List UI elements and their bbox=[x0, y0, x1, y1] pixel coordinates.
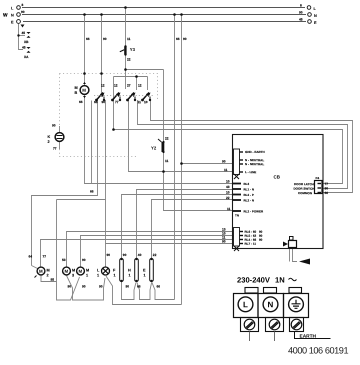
fuse F1 bbox=[113, 253, 129, 289]
svg-text:GND - EARTH: GND - EARTH bbox=[245, 150, 265, 154]
svg-text:P4: P4 bbox=[315, 176, 319, 180]
svg-text:L - LINE: L - LINE bbox=[245, 170, 256, 174]
wire 22 link bbox=[126, 69, 164, 71]
pin RL2-POWER bbox=[227, 207, 264, 218]
svg-text:RL7 - 11: RL7 - 11 bbox=[244, 242, 256, 246]
svg-text:EARTH: EARTH bbox=[299, 334, 316, 340]
svg-text:DOOR SWTCH: DOOR SWTCH bbox=[293, 187, 314, 191]
svg-text:66: 66 bbox=[176, 37, 180, 41]
junction E-branch bbox=[17, 34, 19, 36]
junction neutral bbox=[180, 162, 183, 165]
svg-text:66: 66 bbox=[86, 37, 90, 41]
svg-text:RL2 - P: RL2 - P bbox=[243, 193, 253, 197]
wire y200 left bbox=[57, 199, 106, 201]
wire M1 feed bbox=[81, 236, 233, 267]
switch S4 bbox=[138, 83, 151, 104]
wire 90 drop bbox=[181, 15, 183, 305]
svg-text:22: 22 bbox=[226, 196, 230, 200]
svg-text:1: 1 bbox=[128, 273, 130, 277]
connector XB bbox=[21, 31, 30, 44]
svg-text:COMMON: COMMON bbox=[298, 191, 312, 195]
svg-text:M: M bbox=[74, 86, 77, 90]
svg-text:66: 66 bbox=[90, 189, 94, 193]
wire MB drop 66 bbox=[84, 15, 86, 86]
svg-text:11: 11 bbox=[127, 37, 131, 41]
junction Y3-Y2 bbox=[124, 68, 127, 71]
junction Y2-line bbox=[162, 170, 165, 173]
terminal L right bbox=[300, 3, 317, 11]
svg-text:10: 10 bbox=[226, 190, 230, 194]
svg-text:XB: XB bbox=[24, 40, 29, 44]
svg-text:B: B bbox=[74, 91, 77, 95]
junction N-90 bbox=[180, 13, 183, 16]
wire K2 stub top bbox=[59, 126, 61, 133]
door lock K2 bbox=[47, 123, 63, 150]
svg-text:90: 90 bbox=[299, 10, 303, 14]
wire MB to CB bbox=[85, 95, 233, 184]
wire sw1 drop 90 bbox=[101, 15, 103, 98]
earth point CB bbox=[283, 237, 297, 248]
valve Y3 bbox=[120, 45, 136, 61]
junction N-MB bbox=[83, 13, 86, 16]
svg-text:2: 2 bbox=[46, 273, 48, 277]
wire E branch bbox=[19, 35, 26, 37]
svg-text:1: 1 bbox=[86, 273, 88, 277]
junction L-Y3 bbox=[124, 6, 127, 9]
wire E1 feed bbox=[152, 200, 233, 260]
svg-text:90: 90 bbox=[21, 10, 25, 14]
svg-text:Y2: Y2 bbox=[151, 145, 157, 150]
svg-text:90: 90 bbox=[101, 100, 105, 104]
svg-text:90: 90 bbox=[123, 253, 127, 257]
svg-text:N: N bbox=[314, 14, 317, 18]
wire door A bbox=[114, 90, 343, 184]
junction N-sw1 bbox=[100, 13, 103, 16]
wire sw3 top stub bbox=[136, 77, 138, 91]
svg-text:45: 45 bbox=[299, 17, 303, 21]
wire Y3 to sw2 bbox=[125, 55, 127, 90]
svg-text:22: 22 bbox=[153, 253, 157, 257]
svg-text:12: 12 bbox=[138, 83, 142, 87]
wire sw4 top stub bbox=[147, 77, 149, 91]
heater E1 bbox=[143, 253, 160, 289]
wire switch link bbox=[114, 76, 148, 78]
motor M2 bbox=[28, 254, 54, 281]
svg-text:90: 90 bbox=[99, 284, 103, 288]
svg-text:Y3: Y3 bbox=[130, 47, 136, 52]
svg-text:TN: TN bbox=[235, 213, 239, 217]
svg-text:77: 77 bbox=[115, 100, 119, 104]
junction box-sw1 bbox=[100, 72, 103, 75]
wire sw1c down L1 bbox=[105, 100, 107, 267]
svg-text:90: 90 bbox=[324, 186, 328, 190]
wire door B bbox=[138, 100, 348, 189]
connector J1 bbox=[234, 149, 265, 179]
junction box-MB bbox=[83, 72, 86, 75]
svg-text:90: 90 bbox=[222, 159, 226, 163]
connector XA bbox=[22, 45, 31, 59]
wire M2 feed77 bbox=[41, 240, 233, 267]
svg-text:90: 90 bbox=[125, 284, 129, 288]
svg-text:22: 22 bbox=[165, 136, 169, 140]
mains terminal N bbox=[258, 288, 284, 342]
wire E1 bottom bbox=[152, 282, 175, 300]
svg-text:53: 53 bbox=[62, 258, 66, 262]
wire Y3 drop 11 bbox=[125, 8, 127, 47]
svg-text:DOOR LATCH: DOOR LATCH bbox=[294, 182, 314, 186]
svg-text:43: 43 bbox=[226, 185, 230, 189]
wire L1 bottom bbox=[106, 276, 182, 305]
svg-text:RL2 - N: RL2 - N bbox=[243, 198, 254, 202]
junction N-66 bbox=[173, 13, 176, 16]
chassis arrow bbox=[299, 259, 310, 265]
svg-text:RL3: RL3 bbox=[243, 182, 249, 186]
svg-text:11: 11 bbox=[224, 168, 228, 172]
svg-text:M: M bbox=[86, 268, 89, 272]
svg-text:CB: CB bbox=[273, 174, 280, 179]
wire H1 feed bbox=[137, 190, 233, 260]
svg-text:2: 2 bbox=[47, 140, 49, 144]
svg-text:M: M bbox=[78, 269, 82, 274]
thermostat H1 bbox=[128, 253, 142, 289]
junction door-A bbox=[112, 128, 115, 131]
earth label bbox=[295, 332, 331, 340]
svg-text:M: M bbox=[64, 269, 68, 274]
svg-text:77: 77 bbox=[53, 146, 57, 150]
junction link-sw3 bbox=[135, 75, 138, 78]
terminal E right bbox=[299, 17, 317, 25]
wire sw2 top stub bbox=[113, 77, 115, 91]
svg-text:1: 1 bbox=[143, 273, 145, 277]
wire F1 bottom bbox=[122, 282, 137, 300]
connector P4 bbox=[293, 176, 328, 195]
svg-text:22: 22 bbox=[127, 57, 131, 61]
svg-text:1: 1 bbox=[113, 273, 115, 277]
svg-text:90: 90 bbox=[222, 239, 226, 243]
wire earth cmp down bbox=[290, 248, 298, 262]
svg-text:H: H bbox=[128, 268, 131, 272]
svg-text:M: M bbox=[82, 88, 86, 93]
wire L1 feed bbox=[106, 243, 233, 245]
svg-text:M: M bbox=[72, 268, 75, 272]
svg-text:N: N bbox=[11, 13, 14, 17]
svg-text:66: 66 bbox=[94, 100, 98, 104]
wire door C bbox=[151, 100, 353, 193]
wire sw3 drop line bbox=[129, 100, 233, 172]
svg-text:12: 12 bbox=[101, 83, 105, 87]
svg-text:90: 90 bbox=[259, 238, 263, 242]
svg-text:66: 66 bbox=[79, 100, 83, 104]
svg-text:M: M bbox=[46, 268, 49, 272]
svg-text:230-240V: 230-240V bbox=[237, 275, 271, 284]
svg-text:90: 90 bbox=[106, 253, 110, 257]
svg-text:77: 77 bbox=[42, 254, 46, 258]
svg-text:4000 106 60191: 4000 106 60191 bbox=[288, 345, 348, 355]
terminal N left bbox=[11, 10, 25, 18]
svg-text:45: 45 bbox=[22, 45, 26, 49]
svg-text:90: 90 bbox=[183, 37, 187, 41]
svg-text:10: 10 bbox=[144, 100, 148, 104]
timer box dashed bbox=[60, 74, 158, 157]
svg-text:11: 11 bbox=[227, 207, 231, 211]
svg-text:90: 90 bbox=[82, 258, 86, 262]
wire F1 feed bbox=[122, 195, 233, 260]
pin RL2-N bbox=[226, 196, 254, 203]
svg-text:3: 3 bbox=[72, 273, 74, 277]
wire M3 bottom bbox=[67, 276, 106, 301]
terminal E left bbox=[11, 20, 25, 28]
svg-text:10: 10 bbox=[226, 179, 230, 183]
lamp L1 bbox=[97, 253, 110, 289]
pin RL3 bbox=[226, 179, 250, 186]
motor M1 bbox=[77, 258, 90, 289]
svg-text:77: 77 bbox=[324, 182, 328, 186]
svg-text:L: L bbox=[243, 300, 248, 309]
svg-text:RL2 - POWER: RL2 - POWER bbox=[243, 209, 264, 213]
svg-text:1: 1 bbox=[97, 273, 99, 277]
terminal N right bbox=[299, 10, 317, 18]
wire L rail bbox=[22, 7, 305, 9]
motor MB bbox=[74, 82, 88, 104]
wire M2 bottom link bbox=[41, 200, 80, 301]
svg-text:N: N bbox=[267, 300, 273, 309]
svg-text:90: 90 bbox=[52, 123, 56, 127]
switch S2 bbox=[111, 83, 121, 104]
svg-text:W: W bbox=[3, 12, 8, 18]
svg-text:12: 12 bbox=[114, 83, 118, 87]
svg-text:RL1 - N: RL1 - N bbox=[243, 187, 254, 191]
wire N rail bbox=[22, 14, 306, 16]
svg-text:66: 66 bbox=[137, 284, 141, 288]
svg-text:27: 27 bbox=[127, 83, 131, 87]
svg-text:40: 40 bbox=[138, 253, 142, 257]
connector J2 bbox=[234, 228, 263, 252]
wire sw1a down bbox=[91, 101, 93, 184]
svg-text:8: 8 bbox=[300, 3, 302, 7]
svg-text:K: K bbox=[47, 135, 50, 139]
valve Y2 bbox=[151, 136, 169, 163]
svg-text:45: 45 bbox=[21, 31, 25, 35]
switch linkage bbox=[94, 95, 153, 97]
pin RL2-P bbox=[226, 190, 254, 197]
motor M3 bbox=[62, 258, 75, 289]
switch S3 bbox=[126, 83, 141, 104]
mains terminal L bbox=[234, 288, 259, 342]
switch S1 bbox=[94, 83, 105, 104]
terminal L left bbox=[11, 3, 24, 11]
wire E drop bbox=[19, 24, 24, 50]
wire M2 feed64 bbox=[32, 266, 38, 269]
mains terminal earth bbox=[284, 288, 309, 332]
svg-text:95: 95 bbox=[50, 278, 54, 282]
svg-text:90: 90 bbox=[103, 37, 107, 41]
wire 66 drop bbox=[174, 15, 176, 300]
svg-text:8: 8 bbox=[21, 3, 23, 7]
pin RL1-N bbox=[226, 185, 254, 192]
svg-text:11: 11 bbox=[165, 159, 169, 163]
wire neutral to CB bbox=[182, 163, 233, 165]
svg-text:64: 64 bbox=[28, 254, 32, 258]
svg-text:66: 66 bbox=[156, 284, 160, 288]
wire Y2 chain bbox=[164, 70, 233, 211]
svg-text:90: 90 bbox=[82, 284, 86, 288]
svg-text:M: M bbox=[39, 269, 43, 274]
wire M3 feed bbox=[67, 232, 233, 267]
svg-text:XA: XA bbox=[24, 55, 29, 59]
control board CB bbox=[233, 135, 324, 249]
wire sw1b down bbox=[32, 101, 98, 266]
label AC bbox=[289, 278, 297, 280]
svg-text:66: 66 bbox=[324, 191, 328, 195]
wire K2 stub bottom bbox=[59, 142, 61, 150]
svg-text:N - NEUTRAL: N - NEUTRAL bbox=[245, 162, 264, 166]
svg-text:1N: 1N bbox=[275, 275, 285, 284]
svg-text:11: 11 bbox=[137, 100, 141, 104]
svg-text:90: 90 bbox=[67, 284, 71, 288]
wire E rail bbox=[23, 21, 306, 23]
